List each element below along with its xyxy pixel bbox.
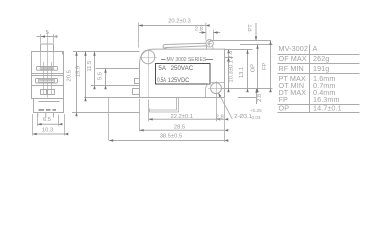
stacked dim level 68.5 [96,68,140,70]
svg-text:OP: OP [279,104,290,113]
svg-text:14.7±0.1: 14.7±0.1 [313,104,342,113]
svg-text:FP: FP [262,63,268,71]
side view band 1 [37,67,58,71]
dim 38.5±0.5 [160,134,183,140]
dim 28.5 [174,124,185,130]
svg-text:20.2±0.3: 20.2±0.3 [168,18,191,24]
terminal tab 1 [135,79,140,84]
side view lower line [32,85,64,87]
MV 3002 SERIES dashes [161,59,213,61]
FP level line [210,40,271,42]
case top extension right [225,49,253,51]
stacked dim base level 112.5 [72,112,140,114]
PT dim [255,23,257,40]
side view mid lines [32,74,64,76]
svg-text:5A: 5A [158,65,166,72]
svg-text:MV-3002: MV-3002 [279,44,308,53]
stacked dim level 85.5 [91,85,140,87]
svg-text:OF MAX: OF MAX [279,54,307,63]
dim 2.8 top [195,27,203,33]
svg-text:28.5: 28.5 [174,124,185,130]
dim 6.5 [38,115,59,127]
dim 15.9 vertical [85,52,87,98]
svg-text:191g: 191g [313,64,329,73]
svg-text:0.5A: 0.5A [157,77,166,84]
svg-text:A: A [313,44,318,53]
lever curl [206,40,213,47]
side view inner verticals [41,52,54,95]
hole boss outline [206,83,225,98]
svg-text:13.1: 13.1 [239,67,245,78]
svg-text:250VAC: 250VAC [171,65,194,72]
side view base block [34,99,64,113]
OP dim [257,45,259,89]
plunger extension lines [41,34,54,43]
case outline front view [140,49,225,97]
lever arm [163,43,207,48]
dim 20.5 vertical [76,52,78,113]
dim 22.2±0.1 [171,114,194,120]
plunger stubs front view [206,46,213,49]
side view plunger dim 5 line [37,36,58,38]
label text 0.5A 125VDC [157,77,190,84]
side view plunger [41,44,54,52]
svg-text:2.8: 2.8 [257,94,263,102]
svg-text:10.3: 10.3 [42,128,53,134]
reference plane line [222,88,273,90]
svg-text:OP: OP [251,64,257,73]
dim 5.5 vertical [105,69,107,86]
svg-text:-0.03: -0.03 [250,115,261,120]
svg-text:5.5: 5.5 [97,72,103,80]
label text 5A 250VAC [158,65,193,72]
svg-text:+0.25: +0.25 [250,108,262,113]
MV 3002 SERIES text [167,57,207,63]
svg-text:6.5: 6.5 [43,117,51,123]
svg-text:2.8: 2.8 [195,27,203,33]
FP dim [270,41,272,89]
side view slot rects [41,90,55,95]
OP level line [240,44,273,46]
dim 10.3 [33,114,65,136]
hole callout 2-Ø3.1 [234,108,262,120]
svg-text:2.8: 2.8 [216,114,224,120]
svg-text:10.3±0.1: 10.3±0.1 [229,60,235,83]
svg-text:PT: PT [248,24,254,32]
hole leader [218,93,232,119]
label box [156,64,211,85]
svg-text:38.5±0.5: 38.5±0.5 [160,134,183,140]
spec table lines [278,45,360,113]
dim 20.2±0.3 [168,18,191,24]
dim 11.5 vertical [94,52,96,86]
mounting hole bottom right [208,81,224,95]
svg-text:RF MIN: RF MIN [279,64,304,73]
dim 2.8 bottom right [238,89,258,104]
stacked dim top line [73,51,140,53]
mounting hole top left [140,50,157,98]
svg-text:11.5: 11.5 [87,61,93,72]
dim 2.8 bottom [216,114,224,120]
dim 13.1 vertical [247,50,249,89]
svg-text:MV 3002 SERIES: MV 3002 SERIES [167,57,207,63]
svg-text:15.9: 15.9 [75,66,81,77]
hole level extension right [225,57,233,59]
side view terminal dashes [39,109,57,111]
extension line for 38.5 [108,98,110,141]
spec table text [279,44,342,113]
side view centre line [47,32,49,98]
side view band 2 [36,79,58,84]
svg-text:262g: 262g [313,54,329,63]
svg-text:125VDC: 125VDC [168,77,190,84]
side view plunger dim 5 text [46,30,49,36]
side view body outline [32,52,64,99]
dim 2.8 / 10.3 vertical right [228,49,230,88]
svg-text:20.5: 20.5 [67,70,73,81]
svg-text:2.8: 2.8 [228,51,234,59]
terminal tab 2 [133,89,140,95]
side view terminal pins [38,113,54,118]
common terminal bent left [150,98,179,113]
stacked dim bottom level 97.5 [84,97,140,99]
